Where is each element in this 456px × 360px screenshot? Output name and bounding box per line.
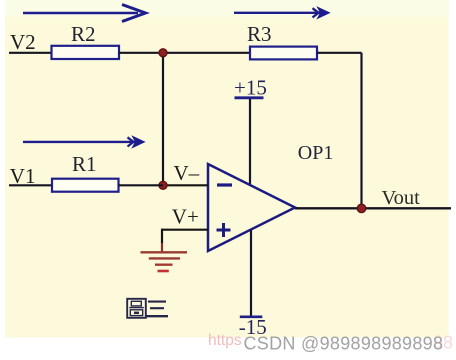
wire +15 to op-amp [249, 99, 251, 185]
+15 power bar [235, 96, 264, 99]
wire op-amp to -15 [250, 230, 252, 316]
wire R2 to node A [119, 52, 163, 54]
wire V2 input [9, 52, 52, 54]
svg-text:V2: V2 [10, 30, 36, 54]
svg-text:V+: V+ [172, 205, 199, 229]
wire node B to inverting input [163, 184, 208, 186]
svg-text:R3: R3 [247, 22, 272, 46]
resistor R3 [250, 47, 317, 60]
svg-text:R2: R2 [71, 22, 96, 46]
svg-text:Vout: Vout [382, 187, 421, 209]
svg-text:R1: R1 [72, 152, 97, 176]
wire to ground vertical [161, 229, 163, 243]
wire node A to R3 [163, 52, 250, 54]
wire output [295, 207, 451, 209]
node B junction dot [159, 181, 167, 189]
arrow A1 (top-left current direction) [23, 5, 146, 22]
wire node A to node B vertical [162, 53, 164, 186]
label figure three (CJK drawn) [127, 299, 168, 318]
svg-text:CSDN @989898989898: CSDN @989898989898 [244, 334, 444, 354]
svg-text:OP1: OP1 [298, 142, 334, 164]
resistor R2 [52, 46, 120, 59]
arrow A2 (middle-left current direction) [23, 136, 145, 147]
wire R1 to node B [119, 184, 164, 186]
op-amp plus symbol [217, 223, 231, 237]
node A junction dot [159, 49, 167, 57]
svg-text:V–: V– [174, 161, 200, 185]
resistor R1 [52, 179, 119, 192]
wire R3 to feedback corner [317, 52, 362, 54]
wire non-inverting input [162, 229, 208, 231]
ground [141, 252, 188, 271]
svg-text:+15: +15 [234, 76, 267, 100]
op-amp minus symbol [217, 183, 232, 186]
node OUT junction dot [357, 204, 366, 213]
-15 power bar [240, 315, 262, 318]
wire V1 input [9, 184, 52, 186]
wire feedback vertical [360, 53, 362, 209]
svg-text:https: https [208, 332, 242, 349]
op-amp U1 triangle [208, 164, 295, 251]
arrow A3 (top-right current direction) [234, 7, 330, 18]
